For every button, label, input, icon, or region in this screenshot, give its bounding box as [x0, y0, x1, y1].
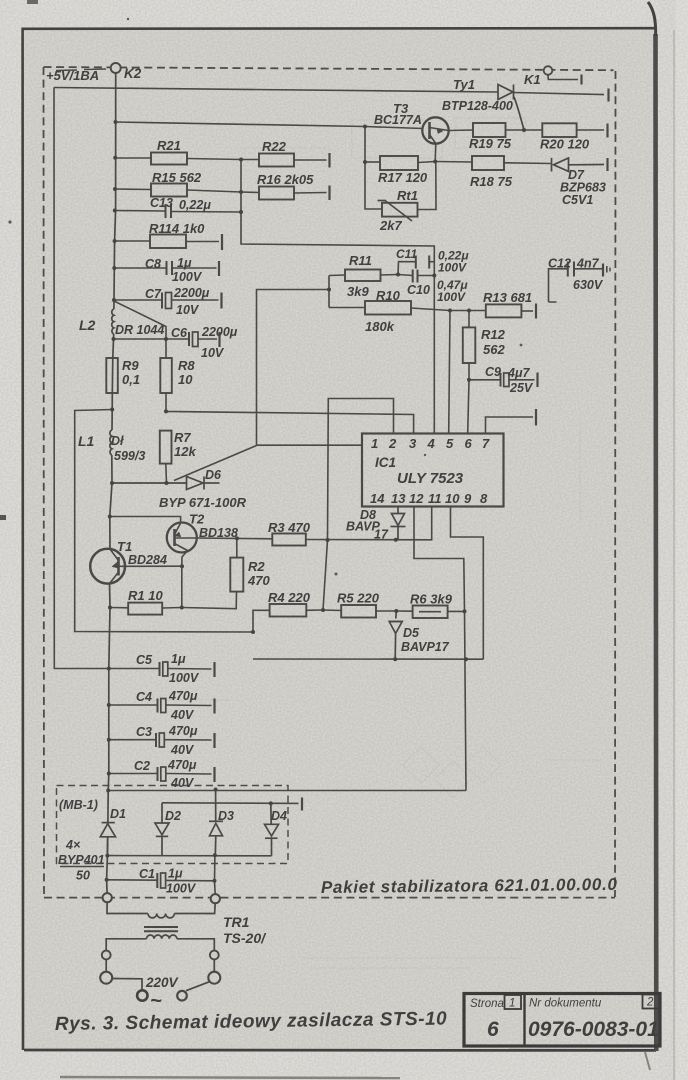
resistor R1: [110, 603, 182, 615]
capacitor C1: [107, 873, 215, 888]
paper grain: [0, 0, 1, 1]
wire: T3 base column: [365, 127, 382, 210]
terminal circle (right, on dashed border): [211, 894, 220, 903]
secondary terminals: [102, 951, 111, 960]
pin numbers bottom: [370, 491, 488, 506]
inductor L2: [112, 309, 114, 334]
resistor R17: [365, 156, 435, 170]
capacitor C2: [109, 767, 215, 782]
wire: rectifier bottom rail: [107, 855, 271, 857]
capacitor C12: [549, 262, 611, 303]
paper edge marks: [27, 0, 38, 4]
terminal K2: [111, 63, 121, 73]
wire: T2 base row: [197, 537, 238, 539]
wire: pin 12 to R6 node: [414, 507, 465, 612]
resistor R5: [323, 605, 396, 618]
wire: pin6 column: [468, 380, 469, 434]
document info box: [464, 994, 660, 1047]
wire: pin5 column: [449, 311, 450, 434]
wire: pin7 to ground T-bar: [486, 417, 534, 434]
resistor R12: [463, 311, 476, 380]
pin numbers top: [371, 436, 490, 451]
wire: inner left rail: [54, 88, 109, 669]
resistor R3: [237, 534, 306, 546]
diode D3: [209, 790, 223, 856]
wire: R8 bottom to pin3 row: [166, 393, 414, 434]
capacitor C7: [114, 293, 222, 309]
capacitor C11: [398, 256, 434, 275]
wire: R3 row to pin 11: [306, 507, 432, 540]
wire: base row to T3: [116, 122, 366, 127]
diode D1: [100, 823, 115, 856]
resistor R2: [182, 538, 244, 608]
terminal circle (left, on dashed border): [103, 893, 112, 902]
wire: R6 right column: [465, 611, 467, 790]
inductor L1: [110, 430, 112, 455]
transistor T2: [110, 517, 197, 567]
wire: 220V leads: [112, 979, 142, 990]
resistor R7: [160, 431, 172, 483]
capacitor C5: [109, 662, 215, 677]
capacitor C10: [398, 270, 434, 283]
wire: pin2 column down to R4/R5: [323, 399, 394, 611]
transistor T1: [90, 549, 182, 584]
resistor R11: [329, 270, 398, 282]
resistor R4: [253, 604, 323, 632]
resistor R20: [524, 123, 608, 137]
resistor R8: [160, 358, 172, 393]
resistor R114: [115, 234, 222, 250]
resistor R9: [106, 358, 118, 393]
capacitor C9: [469, 373, 538, 388]
capacitor C13: [115, 204, 241, 218]
main dashed boundary (Pakiet stabilizatora): [44, 67, 616, 898]
wire: R9 bottom feedback line: [75, 410, 253, 633]
diode D4: [265, 803, 279, 855]
resistor R18: [435, 156, 550, 170]
resistor R10: [329, 301, 450, 315]
capacitor C6: [113, 332, 220, 347]
resistor R15: [115, 184, 241, 197]
thyristor Ty1: [498, 85, 524, 130]
capacitor C8: [114, 261, 219, 276]
wire: rail after thyristor to terminal: [514, 93, 605, 95]
diode D5 (BAVP17): [389, 611, 402, 659]
resistor R13: [450, 304, 536, 319]
stray scan specks: [8, 18, 522, 576]
wire: rectifier top rail: [108, 790, 466, 792]
wire: diagonal C7 node to R8 column: [114, 301, 166, 358]
diode D8 (BAVP17): [391, 507, 406, 541]
wire: bottom row y=659: [253, 658, 483, 660]
wire: K1 stub to T-bar: [548, 75, 578, 80]
resistor R21: [115, 153, 241, 165]
faint ghost bleed-through artifacts: [150, 118, 600, 968]
wire: to primary plug: [105, 959, 107, 971]
op-amp/regulator IC U1 (IC1 ULY 7523): [362, 434, 504, 507]
wire: T2 collector column: [181, 566, 183, 607]
dashed module box MB-1: [57, 786, 289, 864]
wire: diagonal from R7 node to pin1 line: [174, 446, 257, 481]
wire: T3 collector down: [434, 144, 437, 162]
resistor R19: [449, 123, 524, 137]
capacitor C3: [109, 733, 215, 748]
zener diode D7: [552, 158, 608, 172]
resistor R16: [241, 186, 330, 201]
wire: pin 10 down to bottom row: [451, 507, 484, 660]
wire: rectifier second rail with T-bar: [162, 802, 299, 805]
capacitor C4: [109, 699, 215, 714]
wire: R11/R10 left column to IC pin1: [257, 276, 363, 446]
wire: top +5V rail: [54, 88, 498, 93]
terminal K1: [544, 66, 553, 75]
resistor R22: [241, 153, 330, 168]
transistor T3: [365, 117, 449, 143]
diode D6: [112, 477, 220, 490]
diode D2: [155, 803, 169, 856]
resistor R6: [396, 606, 464, 619]
wire: vertical junction column x=241: [241, 160, 434, 434]
thermistor Rt1: [378, 162, 437, 222]
transformer TR1: [106, 902, 215, 950]
wire: right output column: [214, 855, 217, 894]
wire: main +5V bus (left): [107, 73, 116, 893]
ground T-bar (Ty1 row): [607, 89, 609, 102]
